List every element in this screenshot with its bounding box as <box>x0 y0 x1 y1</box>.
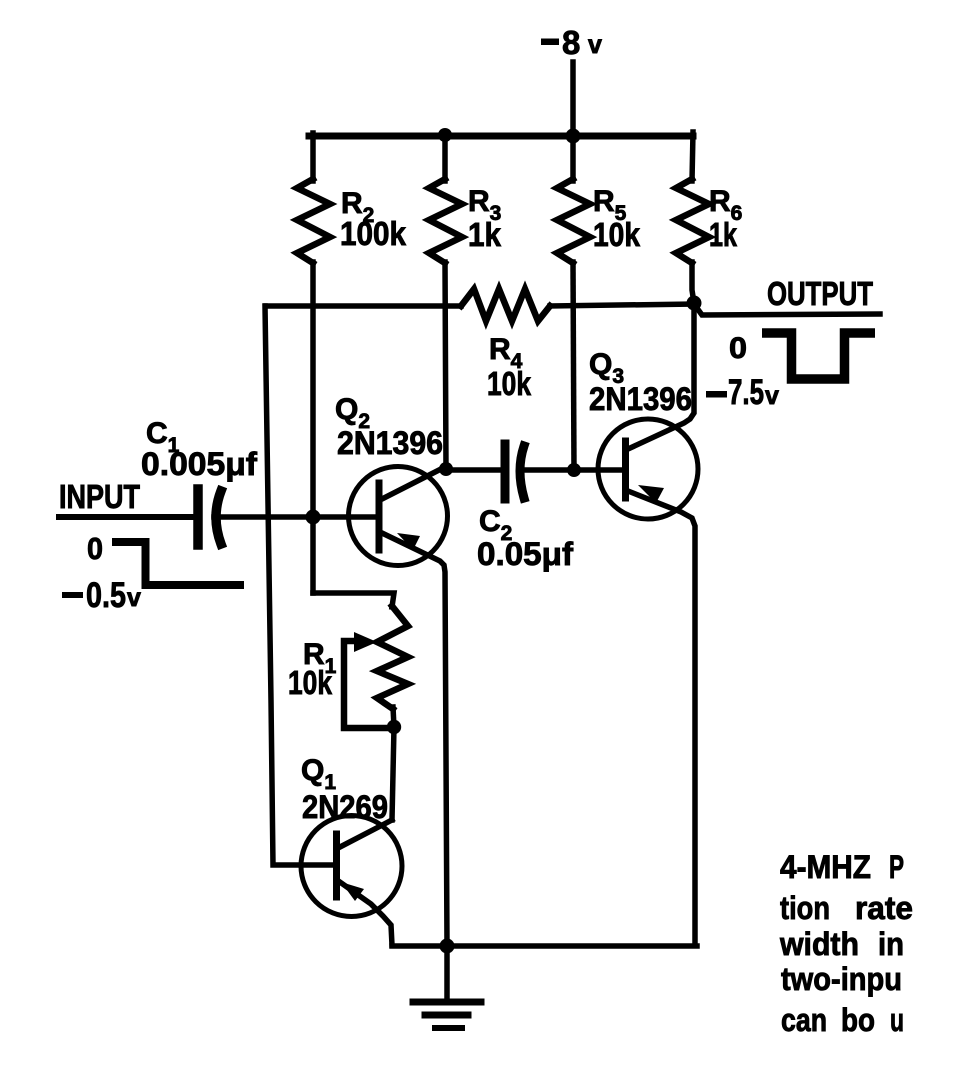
svg-text:0: 0 <box>729 332 747 365</box>
svg-text:v: v <box>588 31 602 59</box>
resistor R1 <box>377 606 408 709</box>
svg-text:1k: 1k <box>709 216 737 253</box>
svg-text:2N269: 2N269 <box>302 789 388 825</box>
transistor Q3 <box>598 303 698 944</box>
svg-text:0: 0 <box>87 531 103 566</box>
svg-text:Q1: Q1 <box>301 754 336 794</box>
node dot output junction <box>687 296 702 311</box>
svg-text:tionrate: tionrate <box>780 890 913 926</box>
svg-text:10k: 10k <box>288 664 333 701</box>
input waveform <box>112 542 244 585</box>
node dot -8v bus junction <box>566 129 581 144</box>
wire R1 wiper arm <box>344 641 388 728</box>
wire R2/input node down branch to R1 <box>313 593 394 607</box>
output waveform <box>762 333 875 379</box>
svg-text:0.5: 0.5 <box>86 576 126 615</box>
capacitor C2 <box>501 444 510 499</box>
transistor Q1 <box>301 816 402 946</box>
wire output line <box>694 304 880 315</box>
node dot R3 top bus junction <box>438 128 452 142</box>
wire left column down to Q1 base <box>265 306 334 865</box>
wire R2 top lead <box>310 133 316 181</box>
svg-text:8: 8 <box>562 24 580 61</box>
wire -8v supply stem <box>570 62 576 136</box>
wire C2 left lead from Q2 collector node <box>446 467 501 473</box>
svg-text:100k: 100k <box>340 215 407 252</box>
wire R5 top lead <box>570 134 576 181</box>
resistor R3 <box>429 179 462 263</box>
wire R3 bottom lead down to Q2 collector node <box>445 262 446 469</box>
resistor R4 <box>461 289 550 321</box>
svg-text:v: v <box>765 382 779 410</box>
label -8 v <box>541 24 602 61</box>
node dot ground bus <box>440 939 455 954</box>
svg-text:1k: 1k <box>468 216 502 253</box>
arrowhead Q3 emitter <box>638 485 664 503</box>
svg-text:OUTPUT: OUTPUT <box>767 275 873 312</box>
label -0.5v <box>62 576 141 615</box>
svg-text:0.05μf: 0.05μf <box>477 536 573 572</box>
wire R6 bottom lead to output node <box>692 262 694 303</box>
node dot Q2 collector / C2 / R3 <box>439 462 453 476</box>
node dot R1 bottom <box>387 720 401 734</box>
svg-text:two-inpu: two-inpu <box>781 961 902 997</box>
wire R6 top lead <box>692 132 693 181</box>
svg-text:INPUT: INPUT <box>59 478 140 515</box>
resistor R2 <box>297 179 330 263</box>
svg-text:canbou: canbou <box>781 1002 904 1038</box>
ground <box>413 946 481 1028</box>
transistor Q2 <box>349 467 448 945</box>
wire R1 bottom node down to Q1 collector <box>392 727 394 820</box>
wire input line left <box>59 514 193 520</box>
svg-text:10k: 10k <box>487 365 532 402</box>
resistor R6 <box>676 179 709 263</box>
svg-text:2N1396: 2N1396 <box>589 381 692 417</box>
arrowhead Q1 emitter <box>341 882 364 901</box>
arrowhead R1 wiper <box>354 632 377 652</box>
wire bottom ground bus <box>392 943 697 949</box>
svg-text:0.005μf: 0.005μf <box>141 446 257 482</box>
wire R2 bottom lead down to R1 branch <box>310 262 316 593</box>
svg-text:4-MHZP: 4-MHZP <box>780 849 904 885</box>
node dot R5 / C2 / Q3 base <box>567 463 581 477</box>
svg-text:widthin: widthin <box>779 926 904 962</box>
resistor R5 <box>557 179 590 263</box>
arrowhead Q2 emitter <box>397 533 420 550</box>
wire middle bus right segment to output node <box>550 304 694 306</box>
svg-text:7.5: 7.5 <box>728 373 764 412</box>
wire R3 top lead <box>442 133 448 181</box>
wire top supply bus <box>309 133 693 140</box>
wire R1 bottom lead <box>393 707 394 727</box>
wire R5 bottom lead down to C2/Q3 base node <box>573 262 574 470</box>
wire input line right to Q2 base <box>214 514 376 520</box>
svg-text:10k: 10k <box>593 216 641 253</box>
svg-text:v: v <box>127 584 141 612</box>
wire middle bus left segment <box>266 303 461 309</box>
svg-text:2N1396: 2N1396 <box>337 425 443 461</box>
capacitor C1 <box>193 489 203 545</box>
node dot input / R2 / Q2 base <box>306 510 321 525</box>
wire C2 right lead to Q3 base <box>521 467 622 473</box>
label -7.5v <box>706 373 779 412</box>
